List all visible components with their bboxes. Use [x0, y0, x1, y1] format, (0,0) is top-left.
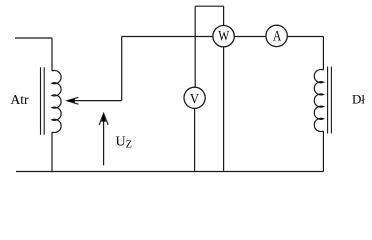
wire: tap arrow horizontal lead	[71, 100, 122, 102]
wire: voltmeter branch vertical lower	[194, 108, 196, 171]
wire: ammeter to right corner	[287, 36, 323, 38]
wire: wattmeter bottom stem	[223, 47, 225, 172]
svg-text:UZ: UZ	[116, 135, 133, 151]
autotransformer Atr winding	[52, 70, 61, 132]
Uz arrow head	[99, 113, 108, 125]
wire: tap to wattmeter horizontal	[122, 36, 213, 38]
wire: left vertical above autotransformer coil	[51, 38, 53, 71]
wire: bottom return	[16, 171, 323, 173]
wire: wattmeter top stem	[223, 6, 225, 25]
svg-text:W: W	[218, 28, 230, 44]
wire: left vertical below autotransformer coil	[51, 132, 53, 172]
svg-text:Atr: Atr	[11, 92, 30, 107]
wire: top-left horizontal supply lead	[15, 37, 52, 39]
svg-text:Dł: Dł	[352, 91, 365, 106]
wattmeter W1 circle	[213, 26, 234, 47]
tap arrow head fill	[67, 99, 75, 103]
wire: right vertical above choke coil	[322, 37, 324, 71]
wire: tap riser vertical	[121, 37, 123, 101]
svg-text:V: V	[190, 92, 199, 108]
choke Dł winding	[314, 70, 323, 132]
ammeter A1 circle	[266, 25, 287, 46]
choke core (two bars)	[328, 67, 332, 134]
tap arrow head	[67, 97, 78, 104]
voltmeter V1 circle	[184, 87, 205, 108]
wire: wattmeter to ammeter	[234, 36, 266, 38]
autotransformer core (two bars)	[41, 67, 45, 135]
svg-text:A: A	[273, 29, 282, 45]
Uz arrow head fill	[101, 113, 106, 121]
wire: right vertical below choke coil	[322, 131, 324, 172]
wire: voltmeter branch vertical upper	[194, 6, 196, 87]
wire: Uz arrow shaft	[103, 116, 105, 166]
wire: top jumper horizontal (voltmeter branch to wattmeter)	[195, 5, 223, 7]
